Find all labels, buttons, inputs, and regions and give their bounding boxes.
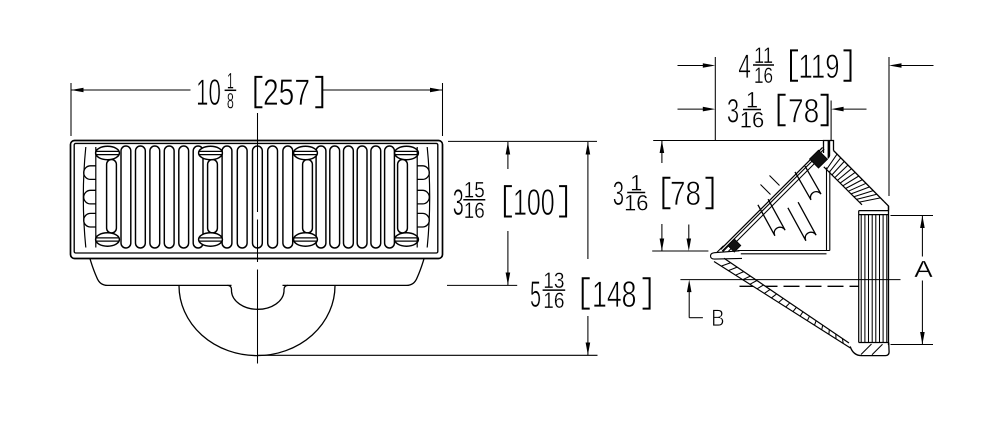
- svg-text:5: 5: [530, 274, 541, 315]
- dim 78 left dimension line: [661, 141, 663, 164]
- section outlet centerline: [680, 279, 900, 281]
- section grate frame apex tab: [824, 141, 834, 154]
- dim 78 top arrows: [678, 108, 705, 110]
- svg-text:3: 3: [453, 182, 464, 223]
- dim 148 extension line bottom: [258, 354, 598, 356]
- drain body right side: [283, 259, 425, 286]
- svg-text:16: 16: [740, 107, 764, 132]
- dim 100 dimension line: [507, 142, 509, 169]
- dim 78 top extension line right: [830, 101, 832, 142]
- svg-text:8: 8: [227, 88, 234, 113]
- dim 119 extension line right: [888, 57, 890, 196]
- grate screws: [96, 146, 419, 246]
- plan view vertical centerline: [257, 113, 259, 212]
- dim 10 1/8 extension line left: [70, 83, 72, 136]
- section interior cavity floor: [738, 250, 830, 252]
- svg-text:10: 10: [196, 72, 221, 113]
- section grate face tick 1: [761, 185, 771, 195]
- dim B outside arrow down: [688, 225, 690, 241]
- svg-text:16: 16: [543, 288, 564, 313]
- svg-text:16: 16: [754, 63, 773, 88]
- dim 78 left extension line top: [653, 140, 823, 142]
- section anchor flange foot: [711, 251, 743, 259]
- section grate slot section b: [758, 199, 785, 236]
- section grate face tick 2: [770, 176, 780, 186]
- section clamp clip top (dark): [810, 150, 828, 168]
- drain body left side: [90, 259, 232, 286]
- dim 78 left extension line bottom: [652, 250, 708, 252]
- section grate underside line: [731, 161, 817, 247]
- section view hidden outlet line (dashed): [740, 285, 872, 287]
- svg-text:148: 148: [592, 274, 637, 315]
- grate left end clip: [83, 147, 96, 248]
- svg-text:119: 119: [799, 48, 840, 86]
- grate slots (full height): [121, 146, 394, 248]
- dim 100 extension line bottom: [447, 284, 517, 286]
- dim 100 extension line top: [448, 140, 597, 142]
- svg-text:78: 78: [670, 175, 701, 213]
- dim A extension line bottom: [891, 344, 934, 346]
- svg-text:A: A: [914, 256, 933, 282]
- dim A extension line top: [891, 215, 934, 217]
- dim B outside arrow up and leader: [687, 280, 692, 293]
- section grate slot section c: [788, 202, 816, 241]
- svg-text:100: 100: [513, 182, 555, 223]
- dim 10 1/8 extension line right: [442, 83, 444, 136]
- svg-text:16: 16: [464, 198, 485, 223]
- section top rim (hatched band): [824, 151, 889, 211]
- svg-text:3: 3: [727, 93, 739, 131]
- section grate face outer line: [721, 147, 823, 249]
- dim 148 dimension line: [587, 142, 589, 259]
- section bottom wall (hatched band): [714, 258, 850, 348]
- svg-text:B: B: [711, 305, 725, 332]
- grate slots (short, at screws): [107, 159, 408, 233]
- svg-text:16: 16: [624, 190, 648, 215]
- svg-text:78: 78: [788, 93, 819, 131]
- dim 119 extension line left: [714, 57, 716, 141]
- dim 10 1/8 dimension line: [71, 89, 191, 91]
- plan view: grate outer frame: [71, 141, 443, 259]
- section clamp clip bottom (dark): [728, 239, 741, 252]
- grate right end clip: [417, 147, 430, 248]
- dim A dimension line: [921, 216, 923, 257]
- plan view: grate inner frame: [74, 143, 438, 253]
- dim 119 arrows: [678, 65, 705, 67]
- svg-text:3: 3: [613, 175, 624, 213]
- drain sump outline (large arc): [179, 286, 335, 356]
- section interior cavity wall: [826, 168, 828, 251]
- section outlet pipe threads: [859, 206, 889, 345]
- section foot hatch ticks: [717, 246, 724, 253]
- section outlet pipe end cap: [850, 343, 889, 356]
- svg-text:4: 4: [738, 48, 751, 86]
- svg-text:257: 257: [263, 72, 310, 113]
- section grate face second line: [722, 149, 824, 251]
- drain outlet hub (small arc): [228, 285, 289, 309]
- section grate slot section a: [795, 166, 821, 200]
